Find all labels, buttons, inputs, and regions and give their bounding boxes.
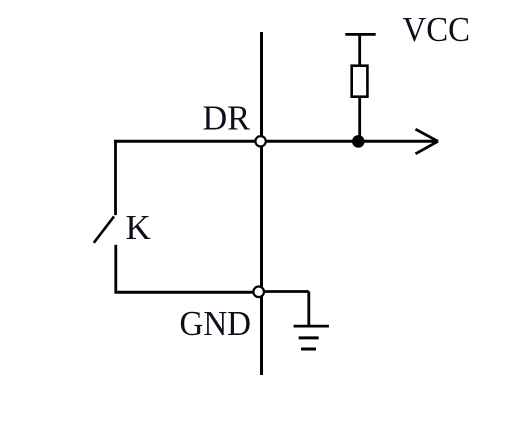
svg-text:GND: GND [180,304,252,343]
svg-text:VCC: VCC [403,10,471,49]
svg-text:DR: DR [203,99,251,138]
svg-text:K: K [126,208,151,247]
